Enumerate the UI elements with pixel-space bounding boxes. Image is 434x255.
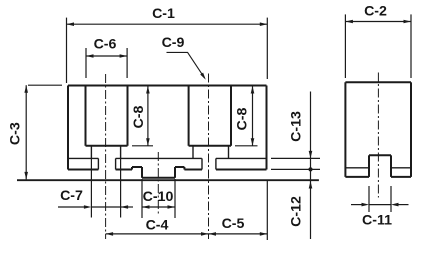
svg-text:C-10: C-10 xyxy=(143,189,174,205)
svg-text:C-5: C-5 xyxy=(222,216,245,232)
dimension C-11 xyxy=(351,186,409,229)
right mounting slot xyxy=(189,86,231,146)
leader C-9 xyxy=(162,35,206,80)
centerline right slot xyxy=(208,74,210,240)
dimension C-6 xyxy=(86,37,127,79)
dimension C-10 xyxy=(142,179,175,218)
svg-text:C-8: C-8 xyxy=(235,107,251,130)
right T-channel lower walls xyxy=(202,158,216,169)
front view body outline xyxy=(68,86,267,170)
svg-text:C-2: C-2 xyxy=(364,4,387,20)
svg-text:C-1: C-1 xyxy=(152,6,175,22)
extension lines C-7 xyxy=(91,158,120,217)
chuck face baseline xyxy=(17,179,319,181)
svg-text:C-7: C-7 xyxy=(60,188,83,204)
dimension C-3 xyxy=(7,85,62,179)
centerline side view xyxy=(377,73,379,198)
left T-channel lower walls xyxy=(98,158,115,169)
svg-text:C-4: C-4 xyxy=(146,218,169,234)
svg-text:C-11: C-11 xyxy=(362,213,392,229)
svg-text:C-12: C-12 xyxy=(289,196,305,227)
bottom tongue with side recesses xyxy=(132,167,184,178)
svg-text:C-6: C-6 xyxy=(94,37,117,53)
dimension C-2 xyxy=(345,4,411,79)
centerline tongue xyxy=(157,152,159,214)
dimension C-8 right xyxy=(235,86,258,146)
svg-text:C-13: C-13 xyxy=(289,111,305,142)
centerline left slot xyxy=(105,74,107,239)
inner groove step line xyxy=(68,157,267,159)
right T-channel upper walls xyxy=(193,146,229,159)
dimension C-13 xyxy=(271,92,320,240)
svg-text:C-9: C-9 xyxy=(162,35,185,51)
side view bottom groove notch xyxy=(369,155,391,177)
dimension C-4 xyxy=(106,218,209,236)
left mounting slot xyxy=(86,86,128,146)
svg-text:C-3: C-3 xyxy=(7,122,23,145)
dimension C-12 xyxy=(289,181,313,227)
side view step lines xyxy=(345,167,411,169)
side view body outline xyxy=(345,82,411,177)
dimension C-7 xyxy=(58,188,133,209)
dimension C-5 xyxy=(209,181,268,240)
svg-text:C-8: C-8 xyxy=(131,105,147,128)
dimension C-1 xyxy=(67,6,268,83)
left T-channel upper walls xyxy=(91,146,120,159)
dimension C-8 left xyxy=(131,86,153,146)
